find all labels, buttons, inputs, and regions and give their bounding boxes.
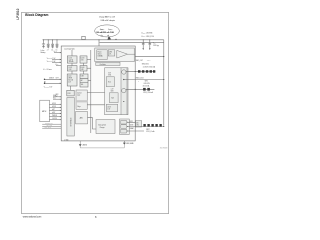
regulator LDO2 bbox=[67, 66, 77, 71]
svg-text:D GND: D GND bbox=[64, 139, 68, 141]
wire aux row 3 bbox=[42, 127, 61, 129]
svg-text:30076808: 30076808 bbox=[160, 148, 168, 150]
wire AC input bbox=[44, 82, 61, 84]
wire VRTC row 3 bbox=[128, 130, 144, 132]
charger block CHG bbox=[67, 74, 77, 86]
wire mpu 1 bbox=[49, 103, 61, 105]
svg-text:32K: 32K bbox=[136, 122, 138, 124]
terminal dot USB bbox=[44, 79, 45, 80]
svg-text:VCC: VCC bbox=[153, 42, 156, 44]
regulator LDO1 bbox=[67, 56, 77, 63]
svg-text:VRTC: VRTC bbox=[146, 129, 150, 131]
svg-text:LP3910: LP3910 bbox=[16, 8, 20, 19]
wire LDO4 to bus bbox=[87, 67, 91, 69]
svg-text:SW2: SW2 bbox=[145, 80, 148, 82]
wire mpu 6 bbox=[49, 119, 61, 121]
svg-text:Li-Ion: Li-Ion bbox=[41, 50, 45, 52]
svg-text:USB: USB bbox=[81, 76, 84, 78]
oscillator block bbox=[96, 62, 120, 65]
wire stub LDO3-LDO4 bbox=[83, 63, 85, 66]
svg-text:VCHG 5V max: VCHG 5V max bbox=[43, 69, 52, 71]
arrowhead pin b bbox=[60, 62, 61, 63]
arrowhead pin a bbox=[60, 59, 61, 60]
svg-text:POR: POR bbox=[68, 93, 71, 95]
current loop ring SW2 bbox=[122, 88, 126, 92]
wire CHG input bbox=[44, 78, 61, 80]
capacitor C1 bbox=[47, 40, 50, 48]
svg-text:4.2V: 4.2V bbox=[68, 81, 71, 83]
wire pin row c bbox=[56, 64, 61, 66]
wire charger input drop bbox=[98, 40, 100, 48]
capacitor C3 bbox=[56, 40, 59, 48]
svg-text:VRTC: VRTC bbox=[130, 121, 134, 123]
left pin labels bbox=[43, 58, 59, 98]
svg-text:SW1_OUT: SW1_OUT bbox=[136, 60, 143, 62]
capacitor row squares VRTC bbox=[143, 124, 161, 127]
wire control to switcher bbox=[87, 92, 104, 94]
IC outline U1 bbox=[61, 46, 135, 141]
wire VRTC row 2 bbox=[128, 126, 164, 128]
wire mpu 2 bbox=[49, 106, 61, 108]
RTC sub 2 bbox=[121, 125, 127, 129]
junction dots bus bbox=[43, 39, 116, 40]
capacitor C2 bbox=[51, 40, 54, 48]
RTC sub 3 bbox=[121, 129, 127, 133]
buck SW3 bbox=[106, 104, 117, 111]
svg-text:SW1: SW1 bbox=[108, 75, 111, 77]
svg-text:1.2V: 1.2V bbox=[111, 88, 114, 90]
svg-text:SEL: SEL bbox=[81, 84, 84, 86]
svg-text:3.0V: 3.0V bbox=[81, 59, 84, 61]
wire VDDIO drop 1 bbox=[142, 40, 145, 49]
wire right vertical feed bbox=[163, 40, 165, 126]
wire mpu 4 bbox=[49, 113, 61, 115]
wire LDO3 to bus bbox=[87, 58, 91, 60]
wire aux row 2 bbox=[42, 125, 61, 127]
svg-text:IUSB: IUSB bbox=[100, 28, 103, 30]
junction dots switcher bbox=[123, 79, 124, 102]
svg-text:CLK32K: CLK32K bbox=[52, 118, 57, 120]
svg-text:chg: chg bbox=[100, 35, 102, 37]
wire VBATT sense bbox=[54, 52, 61, 54]
junction dots right bbox=[135, 56, 165, 127]
pin block right edge bbox=[136, 121, 142, 127]
inductor L1 row squares bbox=[138, 70, 155, 73]
wire VSYS rail bbox=[100, 41, 164, 43]
LDO select block bbox=[80, 74, 88, 87]
wire VRTC row 1 bbox=[128, 121, 136, 123]
svg-text:VDDIO 1.8V @ 150: VDDIO 1.8V @ 150 bbox=[141, 36, 154, 38]
power select sub-block bbox=[97, 50, 107, 60]
arrowhead CHG bbox=[60, 79, 61, 80]
svg-text:100 mA/500 mA CHG: 100 mA/500 mA CHG bbox=[96, 31, 115, 34]
regulator LDO3 bbox=[80, 56, 87, 63]
svg-text:Logic: Logic bbox=[77, 95, 81, 97]
svg-text:Block Diagram: Block Diagram bbox=[25, 13, 48, 17]
battery BT1 bbox=[42, 40, 45, 48]
wire stub LDO1-LDO2 bbox=[71, 63, 73, 66]
svg-text:A/D: A/D bbox=[80, 117, 84, 120]
fuse F1 on bus bbox=[82, 36, 85, 39]
ADC block bbox=[76, 112, 88, 124]
wire I2C SCL bbox=[53, 98, 61, 100]
svg-text:2.8V: 2.8V bbox=[69, 69, 72, 71]
svg-text:LDO5: LDO5 bbox=[107, 106, 111, 108]
wire I2C SDA bbox=[53, 96, 61, 98]
svg-text:Charger: Charger bbox=[100, 127, 106, 129]
backup battery charger block bbox=[96, 120, 115, 134]
svg-text:GPIO1: GPIO1 bbox=[52, 103, 56, 105]
arrowhead VBATT sense bbox=[60, 52, 61, 53]
svg-text:nINT: nINT bbox=[52, 109, 55, 111]
wire aux row 1 bbox=[42, 123, 61, 125]
wire VDDIO drop 2 bbox=[149, 40, 152, 49]
wire stub CHG-POR bbox=[70, 86, 72, 90]
wire regs to switcher bbox=[87, 104, 104, 106]
arrowhead AC bbox=[60, 83, 61, 84]
svg-text:SW1/LDO1: SW1/LDO1 bbox=[142, 64, 149, 66]
svg-text:1.8V: 1.8V bbox=[81, 69, 84, 71]
svg-text:LDO3: LDO3 bbox=[81, 57, 85, 59]
wire stub LDO2-CHG bbox=[71, 71, 73, 74]
wire select to bus bbox=[88, 79, 91, 81]
svg-text:32K_OUT: 32K_OUT bbox=[47, 125, 53, 127]
svg-text:LDO2: LDO2 bbox=[69, 67, 73, 69]
wire SW1 out row bbox=[126, 70, 155, 72]
control register block bbox=[76, 90, 87, 109]
wire charger to rail bbox=[135, 56, 164, 58]
page frame bbox=[22, 12, 169, 213]
ground rail bbox=[80, 145, 124, 148]
svg-text:MPU: MPU bbox=[42, 111, 47, 113]
svg-text:1.3V: 1.3V bbox=[107, 109, 110, 111]
svg-text:SW2_LDO4: SW2_LDO4 bbox=[136, 78, 144, 80]
svg-text:CHG: CHG bbox=[109, 52, 112, 54]
switcher pin column bbox=[121, 68, 127, 115]
capacitor row squares LDO bbox=[143, 88, 150, 91]
svg-text:4.7: 4.7 bbox=[47, 49, 49, 51]
labels LDO boxes bbox=[68, 57, 85, 94]
junction dots VDDIO bbox=[142, 38, 145, 41]
svg-text:Li-Ion: Li-Ion bbox=[68, 76, 72, 78]
svg-text:3.3V: 3.3V bbox=[108, 72, 111, 74]
MPU block bbox=[40, 100, 50, 122]
terminal dot AC bbox=[44, 83, 45, 84]
arrowheads mpu wires bbox=[60, 96, 61, 120]
svg-text:0.8V-3.3V: 0.8V-3.3V bbox=[144, 83, 150, 85]
wire pin row b bbox=[52, 61, 61, 63]
regulator LDO4 bbox=[80, 66, 87, 71]
wire LDO feed row bbox=[124, 79, 164, 81]
svg-text:VDDIO 1.85 V/8b: VDDIO 1.85 V/8b bbox=[141, 32, 152, 34]
callout pointer bbox=[108, 36, 111, 39]
RTC sub 1 bbox=[121, 120, 127, 124]
wire stub to LDO1 bbox=[71, 50, 73, 56]
wire internal bus bbox=[90, 50, 92, 133]
svg-text:Power: Power bbox=[98, 51, 102, 53]
wire charger output bbox=[128, 53, 136, 55]
arrowhead VDDIO 1 bbox=[142, 48, 144, 50]
buck SW2 bbox=[109, 93, 118, 103]
svg-text:1.5V @: 1.5V @ bbox=[69, 59, 74, 61]
op-amp U2 bbox=[117, 50, 128, 58]
callout ellipse charger note bbox=[95, 25, 120, 37]
svg-text:USB or AC adapter: USB or AC adapter bbox=[101, 19, 116, 22]
svg-text:LDO1: LDO1 bbox=[69, 57, 73, 59]
svg-text:www.national.com: www.national.com bbox=[23, 216, 42, 219]
wire mpu 5 bbox=[49, 116, 61, 118]
RTC LDO cluster bbox=[120, 119, 130, 135]
svg-text:Regs: Regs bbox=[77, 106, 81, 108]
arrowhead VDDIO 2 bbox=[149, 48, 151, 50]
wire pin row a bbox=[52, 59, 61, 61]
interface block (tall) bbox=[67, 98, 74, 137]
svg-text:Charge BATT to 4.2V: Charge BATT to 4.2V bbox=[99, 16, 116, 19]
svg-text:GPIO2: GPIO2 bbox=[52, 106, 56, 108]
block POR bbox=[67, 90, 74, 96]
svg-text:I2C: I2C bbox=[56, 96, 58, 98]
svg-text:PWRON: PWRON bbox=[52, 115, 57, 117]
svg-text:nRST: nRST bbox=[52, 112, 56, 114]
buck SW1 bbox=[106, 77, 114, 87]
svg-text:CTL: CTL bbox=[109, 54, 112, 56]
wire stub LDO4-SEL bbox=[83, 71, 85, 74]
wire SW2 out row bbox=[126, 88, 154, 90]
wire mpu 3 bbox=[49, 109, 61, 111]
ground AGND bbox=[79, 141, 81, 146]
wire adc to backup bbox=[88, 118, 97, 129]
charger group box bbox=[95, 48, 134, 62]
wire VBATT bus bbox=[43, 39, 164, 41]
svg-text:LDO4: LDO4 bbox=[81, 67, 85, 69]
svg-text:CHGR: CHGR bbox=[68, 78, 72, 80]
switcher group box bbox=[105, 68, 128, 115]
charger logic sub-block bbox=[108, 50, 115, 56]
ground EPAD stub bbox=[123, 141, 125, 143]
current loop ring SW1 bbox=[122, 70, 126, 74]
svg-text:MODE/SYNC: MODE/SYNC bbox=[45, 123, 53, 125]
svg-text:SW2: SW2 bbox=[111, 91, 114, 93]
